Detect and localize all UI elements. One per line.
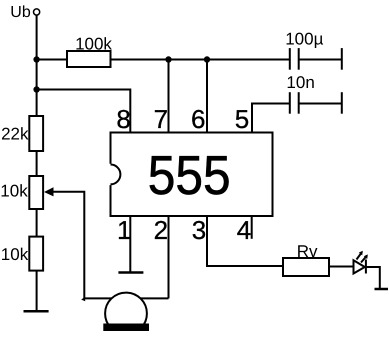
wire Ub vertical rail — [36, 15, 38, 116]
LED D1 triangle — [354, 260, 365, 273]
junction pin8 branch — [33, 86, 39, 92]
svg-text:10n: 10n — [286, 73, 314, 92]
wiper arrow P1 — [44, 187, 54, 196]
LED D1 cathode bar — [365, 260, 367, 274]
wire pin2 — [168, 216, 170, 298]
capacitor C1 100µ — [290, 48, 299, 70]
terminal Ub — [34, 9, 40, 15]
terminal bar C1 — [341, 48, 343, 70]
junction top rail — [33, 56, 39, 62]
ground left — [24, 310, 49, 313]
svg-text:6: 6 — [191, 104, 205, 134]
op-amp U1 555 body — [111, 133, 273, 217]
svg-text:100k: 100k — [75, 35, 112, 54]
wire pin7 — [168, 60, 170, 133]
svg-text:Ub: Ub — [10, 4, 31, 21]
wire C1 to terminal — [299, 59, 342, 61]
svg-text:10k: 10k — [1, 245, 29, 264]
svg-text:8: 8 — [116, 104, 130, 134]
svg-text:22k: 22k — [1, 124, 29, 143]
wire pin6 — [206, 60, 208, 133]
svg-text:4: 4 — [237, 215, 251, 245]
svg-text:2: 2 — [154, 215, 168, 245]
wire wiper to pin2 net — [53, 192, 169, 299]
svg-text:Rv: Rv — [297, 242, 318, 261]
wire C2 to terminal — [299, 103, 342, 105]
wire R2 to P1 — [36, 151, 38, 176]
svg-text:555: 555 — [148, 144, 231, 206]
wire LED to ground — [366, 267, 380, 289]
wire P1 to R3 — [36, 209, 38, 237]
push button S1 base — [103, 324, 149, 332]
wire pin8 branch — [37, 90, 131, 133]
ground LED — [375, 288, 389, 291]
wire to R1 — [37, 59, 67, 61]
svg-text:100µ: 100µ — [285, 29, 323, 48]
LED D1 emission arrow 2 — [361, 254, 368, 262]
svg-text:5: 5 — [235, 104, 249, 134]
wire pin1 to ground — [129, 216, 131, 273]
ground pin1 — [118, 271, 143, 274]
junction pin6 — [204, 56, 210, 62]
wire pin5 — [252, 104, 290, 133]
wire pin4 stub — [251, 216, 253, 239]
svg-text:1: 1 — [117, 215, 131, 245]
wire R3 to ground — [36, 271, 38, 312]
junction pin7 — [165, 56, 171, 62]
push button S1 dome — [105, 293, 147, 335]
wire top rail to capacitor — [111, 59, 290, 61]
svg-text:3: 3 — [192, 215, 206, 245]
resistor Rv — [283, 258, 329, 276]
LED D1 emission arrow 1 — [357, 251, 363, 260]
capacitor C2 10n — [290, 92, 299, 114]
resistor R1 100k — [67, 51, 111, 67]
junction wiper corner nub — [81, 297, 85, 302]
svg-text:10k: 10k — [0, 181, 28, 200]
wire pin3 to Rv — [207, 216, 283, 266]
notch U1 — [108, 164, 121, 185]
svg-text:7: 7 — [154, 104, 168, 134]
resistor R2 22k — [29, 116, 43, 151]
terminal bar C2 — [341, 92, 343, 114]
resistor R3 10k — [29, 237, 43, 271]
wire Rv to LED — [329, 266, 354, 268]
potentiometer P1 10k — [29, 176, 43, 209]
